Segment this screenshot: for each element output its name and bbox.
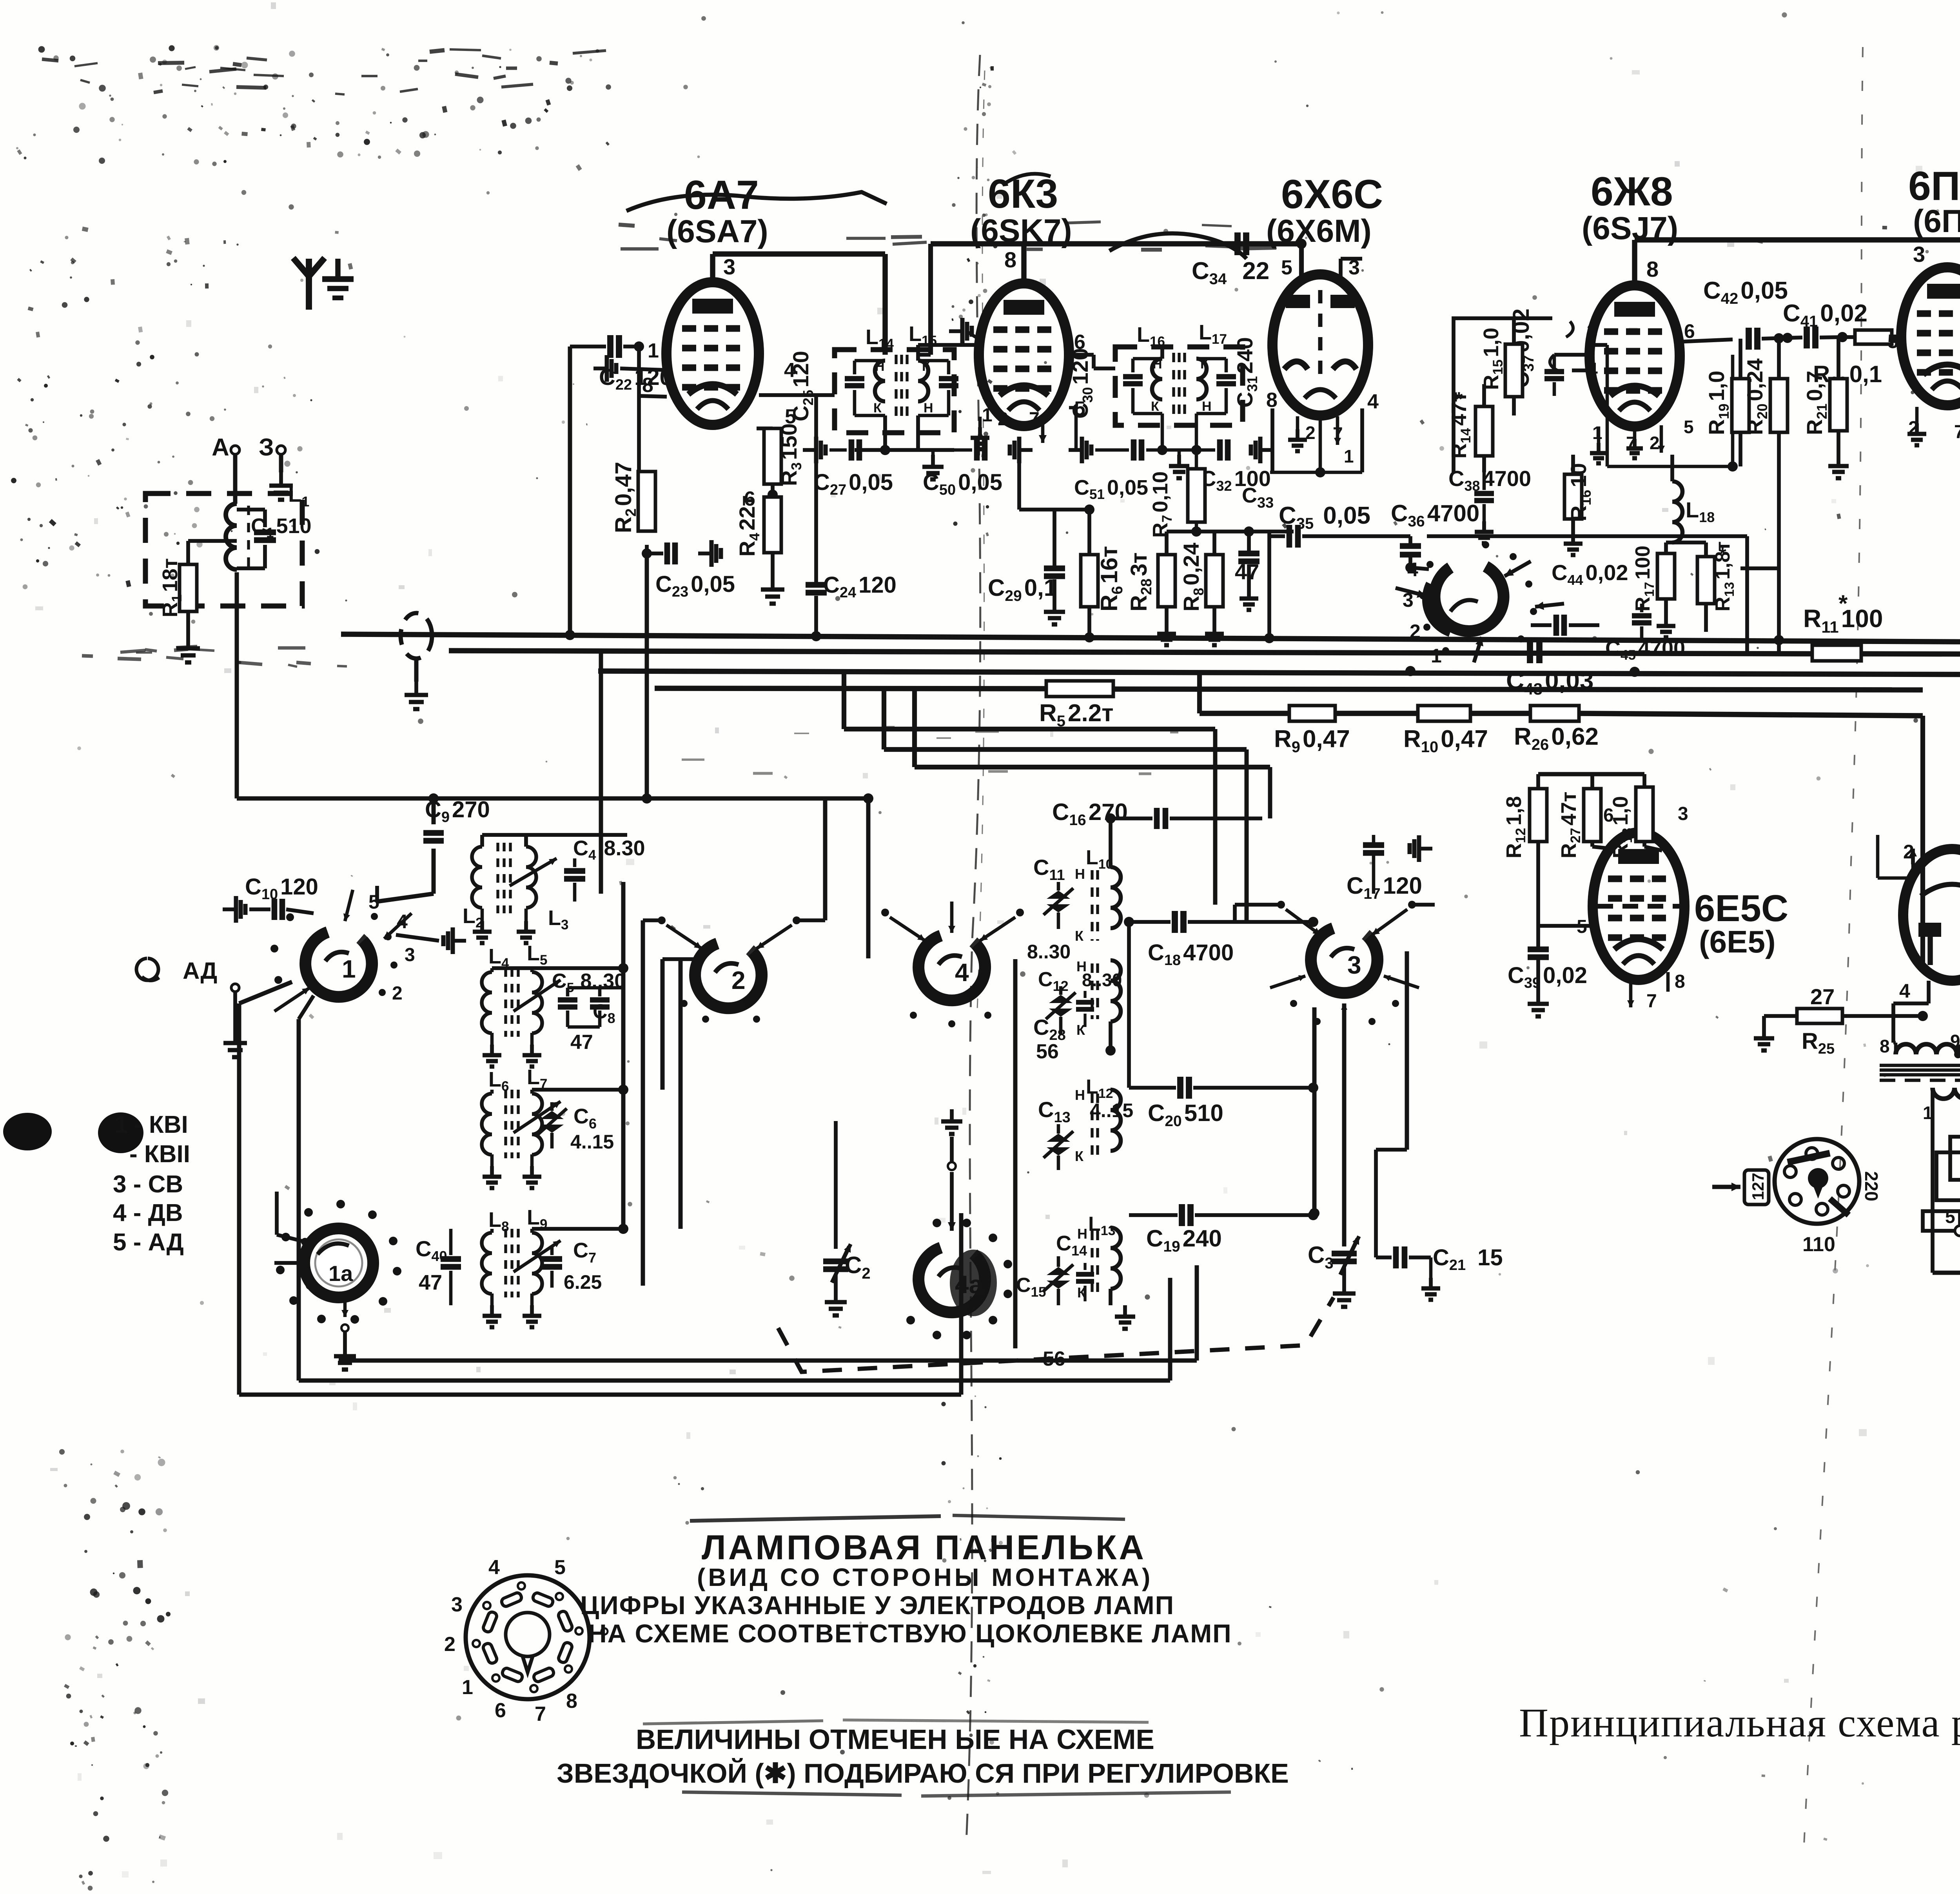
wire bus D long horizontal interrupted by R5 <box>655 688 1046 689</box>
resistor R6 16t <box>1087 510 1091 555</box>
wire wafer1 bottom to vertical2 <box>299 996 314 1019</box>
ground under IF2 <box>1178 450 1181 455</box>
svg-text:C430,03: C430,03 <box>1506 666 1594 698</box>
capacitor C1 510 <box>237 508 265 512</box>
coil L17 <box>1196 359 1207 399</box>
variable capacitor C3 <box>1314 1213 1344 1214</box>
primary taps down <box>1931 1088 1935 1273</box>
svg-text:8: 8 <box>1646 257 1659 281</box>
wires coils to wafer2 <box>662 957 695 961</box>
svg-text:4: 4 <box>955 958 969 987</box>
vertical fold crease right <box>1803 47 1863 1862</box>
svg-text:C390,02: C390,02 <box>1508 963 1587 991</box>
wire step line 2 <box>882 688 886 749</box>
wire IF2 bottom bus <box>1162 448 1196 452</box>
svg-text:1а: 1а <box>328 1261 353 1286</box>
coil L16 <box>1152 359 1162 399</box>
svg-text:C19240: C19240 <box>1146 1225 1222 1255</box>
resistor R2 0,47 <box>638 472 655 531</box>
svg-text:1: 1 <box>462 1676 473 1699</box>
wire 6A7 plate to IF1 <box>710 254 715 282</box>
wire 6X6C pin4 right side down <box>1360 408 1364 472</box>
wire drop to wafer4 <box>866 798 871 958</box>
svg-text:R17100: R17100 <box>1632 546 1657 611</box>
resistor R3 150 <box>764 428 781 484</box>
wires osc coil column verticals <box>1013 959 1018 1348</box>
svg-text:7: 7 <box>1954 422 1960 443</box>
svg-text:8: 8 <box>566 1690 577 1713</box>
svg-text:R52.2т: R52.2т <box>1039 700 1114 730</box>
svg-text:8: 8 <box>1266 389 1278 412</box>
svg-text:27: 27 <box>1810 984 1835 1009</box>
capacitor C27 0,05 <box>803 448 816 452</box>
svg-text:8: 8 <box>1004 247 1016 272</box>
tube V4 6Zh8 AF amp <box>1590 285 1680 426</box>
capacitor C9 270 series <box>432 798 436 824</box>
wire 6K3 pin6 to IF2 <box>1092 355 1096 368</box>
svg-text:C384700: C384700 <box>1448 466 1531 494</box>
wire long vertical from 6A7 grid to wafer2 <box>735 702 736 798</box>
resistor R5 2.2t <box>1046 681 1113 697</box>
selector 127 box <box>1744 1170 1769 1205</box>
svg-text:4: 4 <box>1367 390 1379 413</box>
wire bus B long horizontal with R11 <box>449 651 1812 654</box>
svg-text:- КВII: - КВII <box>129 1141 190 1168</box>
ink blob stain A <box>3 1113 52 1150</box>
wire IF1 secondary to 6K3 grid <box>916 345 920 361</box>
wire bus E drop into 6E5C area <box>1538 716 1539 774</box>
junction dots extra <box>880 445 890 455</box>
svg-text:3: 3 <box>451 1593 463 1616</box>
wire wafer1 left pin to long vertical <box>239 982 292 1003</box>
wafer switch 5 AD section <box>1435 566 1504 631</box>
antenna symbol <box>306 276 312 310</box>
wire 6Zh8 plate rail to 6P3S <box>1632 240 1637 285</box>
svg-text:Н: Н <box>1075 866 1085 882</box>
wafer4 arrows <box>890 917 925 941</box>
svg-text:8: 8 <box>1880 1036 1890 1056</box>
capacitor C26 inside IF1 right <box>918 359 949 363</box>
svg-text:*: * <box>1455 388 1463 410</box>
resistor R27 47t <box>1584 789 1601 842</box>
wafer1a ground below <box>343 1298 347 1317</box>
wire C22 left down to bus A <box>568 347 572 634</box>
wire bus E left riser <box>1197 671 1202 713</box>
svg-text:C22120: C22120 <box>599 365 672 393</box>
wire wafer1a pins left loop <box>275 1192 279 1235</box>
wire step line 1 <box>842 671 846 729</box>
wire L10 K to L12 H chain <box>1110 928 1111 1090</box>
svg-text:3 - СВ: 3 - СВ <box>113 1171 183 1198</box>
capacitor C39 0,02 <box>1536 926 1540 947</box>
ground under IF1 <box>931 450 935 455</box>
svg-text:Н: Н <box>1077 1226 1087 1242</box>
wire wafer3 to coils left <box>1233 905 1237 922</box>
svg-text:НА СХЕМЕ СООТВЕТСТВУЮ ЦОКОЛЕВ: НА СХЕМЕ СООТВЕТСТВУЮ ЦОКОЛЕВКЕ ЛАМП <box>588 1619 1232 1648</box>
svg-text:47: 47 <box>570 1031 593 1054</box>
svg-text:8..30: 8..30 <box>1027 941 1071 963</box>
resistor R9 0,47 <box>1289 706 1335 721</box>
svg-text:R422т: R422т <box>735 495 762 557</box>
nested loop wires bottom left <box>339 1359 1197 1363</box>
capacitor C21 15 <box>1393 1246 1399 1268</box>
selector wiring maze <box>1950 1137 1960 1180</box>
svg-text:*: * <box>1719 544 1726 565</box>
resistor R14* 47t <box>1475 406 1493 456</box>
wire from rail C down to wafer2 top <box>728 671 729 929</box>
svg-text:6Ж8: 6Ж8 <box>1591 169 1673 214</box>
resistor R15 1,0 <box>1505 344 1523 397</box>
ground below shielded oval <box>414 682 418 695</box>
wire IF2 to 6X6C <box>1160 345 1164 359</box>
svg-text:ЦИФРЫ УКАЗАННЫЕ У ЭЛЕКТРОДОВ Л: ЦИФРЫ УКАЗАННЫЕ У ЭЛЕКТРОДОВ ЛАМП <box>580 1591 1174 1620</box>
resistor R18 1,0 <box>1636 787 1653 842</box>
dashed box antenna coil <box>145 493 302 606</box>
variable capacitor C2 <box>823 1259 848 1264</box>
pin 1 6A7 with chassis tick <box>593 366 607 370</box>
wire R4 to ground <box>771 553 775 576</box>
capacitor C31 240 IF2 <box>1196 357 1226 361</box>
svg-text:C20510: C20510 <box>1148 1100 1223 1130</box>
grounds under L8 L9 <box>490 1294 494 1305</box>
svg-text:9: 9 <box>1950 1031 1960 1051</box>
wire A to L1 <box>233 455 238 504</box>
svg-text:ЛАМПОВАЯ ПАНЕЛЬКА: ЛАМПОВАЯ ПАНЕЛЬКА <box>702 1528 1146 1567</box>
tube V5 6P3S output <box>1901 267 1960 405</box>
svg-text:8: 8 <box>1675 971 1685 992</box>
resistor R26 0,62 <box>1530 706 1579 721</box>
wire top feed of R12 R27 R18 <box>1538 772 1644 776</box>
capacitor C50 0,05 <box>918 448 972 452</box>
svg-text:C24120: C24120 <box>823 572 897 601</box>
wire node to bus A <box>1267 532 1271 634</box>
wire step line 3 <box>912 690 917 767</box>
svg-text:C184700: C184700 <box>1148 940 1234 969</box>
svg-text:6Е5С: 6Е5С <box>1694 887 1788 929</box>
svg-text:220: 220 <box>1861 1171 1882 1201</box>
resistor R7 0,10 <box>1188 469 1205 522</box>
resistor R16 10 <box>1564 474 1582 519</box>
wire IF1 bottoms to ground bus <box>883 415 887 450</box>
svg-text:5: 5 <box>1684 417 1694 437</box>
svg-text:3: 3 <box>1587 320 1598 342</box>
svg-text:6: 6 <box>1603 805 1614 826</box>
wafer2 arrows <box>666 925 702 949</box>
resistor R12 1,8 <box>1530 789 1547 842</box>
svg-text:АД: АД <box>183 958 217 984</box>
svg-text:К: К <box>1075 928 1084 944</box>
svg-text:Принципиальная схема радиопр: Принципиальная схема радиоприемника «Бал… <box>1519 1700 1960 1745</box>
wire R20 bottom to bus <box>1740 566 1779 570</box>
svg-text:C25120: C25120 <box>788 351 816 421</box>
svg-text:1: 1 <box>342 955 356 983</box>
wire bus E right drop to 6E5C <box>1920 716 1925 972</box>
box around R14 R15 <box>1454 318 1552 472</box>
wire 6X6C pin8 left <box>1270 408 1274 472</box>
wire 6K3 pin5 bottom to AVC <box>1076 450 1076 474</box>
wafer4a dots <box>1004 1290 1012 1298</box>
svg-text:1: 1 <box>648 339 659 362</box>
svg-text:7: 7 <box>1646 991 1657 1012</box>
svg-text:1: 1 <box>982 405 993 426</box>
svg-text:4..15: 4..15 <box>1090 1099 1133 1121</box>
wafer switch 3 <box>1311 928 1377 993</box>
tube socket legend circle <box>466 1575 590 1699</box>
svg-text:1: 1 <box>1431 645 1442 667</box>
svg-text:6.25: 6.25 <box>564 1271 602 1293</box>
wire pin8 down to R2 <box>637 396 641 472</box>
svg-text:2: 2 <box>731 966 746 994</box>
power transformer core <box>1880 1064 1960 1067</box>
power transformer primary top leads <box>1927 981 1931 1003</box>
svg-text:(6П3): (6П3) <box>1913 203 1960 239</box>
svg-text:R616т: R616т <box>1096 546 1126 611</box>
svg-text:ВЕЛИЧИНЫ ОТМЕЧЕН ЫЕ НА СХЕМЕ: ВЕЛИЧИНЫ ОТМЕЧЕН ЫЕ НА СХЕМЕ <box>636 1724 1154 1755</box>
wire rail to 6X6C pin5 <box>1299 244 1304 277</box>
svg-text:C1510: C1510 <box>251 514 312 541</box>
hump scribble right of 6K3 <box>1109 233 1247 259</box>
svg-text:2: 2 <box>1410 620 1421 642</box>
wire 6Zh8 cathode box <box>1606 345 1609 466</box>
resistor R20 0,24 <box>1774 333 1784 343</box>
capacitor C33 47 <box>1244 526 1254 537</box>
svg-text:4: 4 <box>488 1556 500 1579</box>
svg-text:*: * <box>1838 590 1848 617</box>
svg-text:К: К <box>1075 1148 1084 1164</box>
svg-text:Н: Н <box>1075 1087 1085 1103</box>
wire wafer1 pin4 to chassis tick <box>396 935 439 941</box>
wire Z to ground <box>279 455 283 472</box>
wire 5Ts4S cathode to C49 <box>1878 876 1913 880</box>
svg-text:C17120: C17120 <box>1347 873 1422 902</box>
capacitor C22 120 <box>570 345 606 348</box>
tube V6 5Ts4S rectifier <box>1903 849 1960 981</box>
wire from C24 bottom joining bus A <box>816 634 817 635</box>
svg-text:C500,05: C500,05 <box>923 470 1002 498</box>
svg-text:1: 1 <box>1344 446 1354 466</box>
long verticals to coil column <box>621 882 626 1229</box>
svg-text:R80,24: R80,24 <box>1179 543 1207 611</box>
capacitor C34 22 over detector <box>1234 232 1241 255</box>
svg-text:C31240: C31240 <box>1232 337 1260 408</box>
wire bus A long horizontal <box>341 634 1960 643</box>
svg-text:R100,47: R100,47 <box>1403 726 1488 756</box>
resistor R10 0,47 <box>1418 706 1470 721</box>
coil L18 <box>1670 455 1674 481</box>
capacitor C25 120 inside IF1 <box>855 359 885 363</box>
svg-text:C510,05: C510,05 <box>1074 476 1148 502</box>
svg-text:З: З <box>259 434 274 461</box>
wire 6K3 plate rail <box>1021 244 1026 283</box>
svg-text:56: 56 <box>1036 1040 1059 1063</box>
svg-text:3: 3 <box>1678 804 1688 824</box>
svg-text:C32100: C32100 <box>1200 466 1271 494</box>
ink blob stain B <box>98 1112 143 1153</box>
svg-text:5 - АД: 5 - АД <box>113 1229 184 1256</box>
svg-text:6: 6 <box>1684 320 1695 342</box>
svg-text:Н: Н <box>1202 399 1212 414</box>
grounds under L4 L5 <box>490 1033 494 1045</box>
coil L14 <box>875 361 885 401</box>
wire shielded lead-in oval <box>401 613 432 659</box>
grounds under L2 L3 <box>481 909 484 921</box>
svg-text:4 - ДВ: 4 - ДВ <box>113 1199 183 1226</box>
svg-text:C230,05: C230,05 <box>655 571 735 600</box>
wire L1 down to switch area <box>235 572 239 798</box>
svg-text:C16270: C16270 <box>1052 799 1128 829</box>
wire 6X6C pin1 bottom <box>1319 415 1322 472</box>
tube V7 6E5C magic eye <box>1593 833 1684 980</box>
svg-text:2: 2 <box>998 409 1008 430</box>
wire grid 6Zh8 from C36 <box>1554 353 1590 357</box>
svg-text:127: 127 <box>1749 1173 1767 1200</box>
wafer switch 2 <box>695 943 762 1008</box>
svg-text:А: А <box>212 434 229 461</box>
capacitor C32 100 <box>1195 414 1198 450</box>
svg-text:R200,24: R200,24 <box>1742 359 1770 435</box>
wire R2 bottom down and right (osc line) <box>645 553 649 798</box>
svg-text:C58..30: C58..30 <box>552 970 626 995</box>
svg-text:7: 7 <box>1029 409 1040 430</box>
resistor R22 0,1 horizontal <box>1855 330 1892 344</box>
ground under L13 <box>1109 1289 1112 1305</box>
dashed gang line <box>778 1297 1334 1372</box>
resistor R13* 1,8t <box>1697 557 1715 604</box>
resistor R21 0,7 <box>1837 337 1840 379</box>
capacitor C43 0,03 in series on bus <box>1527 640 1533 663</box>
svg-text:4: 4 <box>1899 980 1910 1002</box>
tube V3 6X6C detector <box>1272 274 1368 415</box>
coil L15 <box>918 361 928 401</box>
svg-text:8..30: 8..30 <box>1082 970 1122 990</box>
wafer switch 4 <box>918 936 985 1000</box>
svg-text:C364700: C364700 <box>1391 500 1479 530</box>
capacitor C30 120 IF2 <box>1133 357 1162 361</box>
wafer switch 4a <box>918 1248 985 1312</box>
capacitor C29 0,1 <box>1019 508 1089 512</box>
wafer4a top stem <box>950 1199 954 1231</box>
ground symbol top <box>335 259 340 279</box>
svg-text:1: 1 <box>114 1111 128 1138</box>
switch VK <box>1933 1271 1960 1275</box>
wafer1a dots around <box>393 1267 401 1275</box>
svg-text:(6SA7): (6SA7) <box>666 214 768 249</box>
wire pin4 right to IF1 dashed box <box>816 393 835 397</box>
svg-text:(6Е5): (6Е5) <box>1699 924 1776 959</box>
chassis tick at 6K3 grid <box>949 329 962 333</box>
wafer5 pins and dots <box>1426 561 1434 568</box>
svg-text:C10120: C10120 <box>245 874 318 903</box>
svg-text:(ВИД СО СТОРОНЫ МОНТАЖА): (ВИД СО СТОРОНЫ МОНТАЖА) <box>697 1563 1153 1591</box>
tube V1 6A7 mixer <box>666 282 759 425</box>
junction dots on buses <box>565 630 575 640</box>
svg-text:47: 47 <box>1235 559 1259 584</box>
underline strokes around text block <box>690 1516 941 1521</box>
svg-text:Н: Н <box>1152 357 1162 372</box>
svg-text:3: 3 <box>1347 951 1361 979</box>
svg-text:C270,05: C270,05 <box>813 470 893 498</box>
svg-text:R260,62: R260,62 <box>1514 723 1599 753</box>
voltage selector disc <box>1775 1139 1859 1224</box>
capacitor C28 cap <box>1076 1000 1094 1005</box>
capacitor C51 0,05 <box>1069 448 1082 452</box>
svg-text:C410,02: C410,02 <box>1783 300 1867 330</box>
wire wafer3 verticals down to C3 <box>1312 1007 1317 1213</box>
wire bus C long horizontal <box>598 671 1960 675</box>
resistor R28 3t <box>1158 555 1175 607</box>
svg-text:Н: Н <box>875 359 885 374</box>
svg-text:C350,05: C350,05 <box>1279 502 1370 532</box>
svg-text:C454700: C454700 <box>1605 637 1685 663</box>
svg-text:6Х6С: 6Х6С <box>1281 172 1383 217</box>
oscillator coil L11 <box>1111 960 1121 1021</box>
svg-text:47: 47 <box>419 1271 442 1294</box>
wire AVC line right extension <box>1427 534 1747 538</box>
svg-text:R2747т: R2747т <box>1557 792 1583 858</box>
power transformer primary winding bottom <box>1933 1088 1960 1099</box>
svg-text:ЗВЕЗДОЧКОЙ (✱) ПОДБИРАЮ СЯ ПР: ЗВЕЗДОЧКОЙ (✱) ПОДБИРАЮ СЯ ПРИ РЕГУЛИРОВ… <box>557 1758 1289 1789</box>
wire R1 to ground <box>186 611 190 635</box>
svg-text:R90,47: R90,47 <box>1274 726 1350 756</box>
wafer switch 1a annulus <box>304 1228 373 1297</box>
tube V2 6K3 IF amp <box>979 283 1069 426</box>
dashed box IF transformer 2 <box>1115 347 1243 425</box>
svg-text:R70,10: R70,10 <box>1149 471 1175 538</box>
svg-text:6К3: 6К3 <box>988 171 1058 217</box>
svg-text:6: 6 <box>495 1699 506 1722</box>
svg-text:3: 3 <box>1913 242 1925 267</box>
resistor R17 100 <box>1657 553 1675 599</box>
power transformer secondary winding top <box>1896 1044 1960 1054</box>
capacitor C10 120 with chassis tick <box>223 907 236 911</box>
capacitor C23 0,05 <box>642 548 652 559</box>
dashed box IF transformer 1 <box>835 350 954 433</box>
capacitor C24 120 <box>814 395 818 583</box>
vertical fold crease left-center <box>966 55 980 1842</box>
socket legend slots <box>532 1592 554 1607</box>
svg-text:R118т: R118т <box>158 558 185 617</box>
svg-text:C48.30: C48.30 <box>573 836 645 863</box>
wire staircase verticals into wafers <box>844 729 844 729</box>
wafer switch 1 <box>305 932 372 997</box>
wire from wafer5 down to C44 <box>1513 625 1531 626</box>
wire pin5 left down <box>1538 924 1582 928</box>
svg-text:4..15: 4..15 <box>570 1131 614 1153</box>
resistor R1 18t <box>188 539 237 543</box>
svg-text:К: К <box>1200 357 1209 372</box>
svg-text:5: 5 <box>1281 256 1292 279</box>
svg-text:7: 7 <box>535 1703 546 1725</box>
grounds under L6 L7 <box>490 1154 494 1166</box>
svg-text:Н: Н <box>924 401 933 415</box>
resistor R4 22t <box>768 490 778 500</box>
svg-text:- КВI: - КВI <box>134 1111 188 1138</box>
svg-text:К: К <box>1151 399 1159 414</box>
svg-text:C440,02: C440,02 <box>1552 560 1628 588</box>
svg-text:2: 2 <box>444 1633 456 1656</box>
svg-text:R3150: R3150 <box>777 423 804 486</box>
hump scribble over 6A7 label <box>626 192 887 211</box>
wafer1a left pins <box>301 1238 309 1246</box>
svg-text:6П3С: 6П3С <box>1908 163 1960 209</box>
resistor R8 0,24 <box>1206 555 1223 607</box>
svg-text:R20,47: R20,47 <box>611 462 639 533</box>
wire IF1 secondary hook up to rail <box>928 244 933 355</box>
svg-text:110: 110 <box>1802 1233 1835 1256</box>
coil L1 <box>226 504 237 570</box>
wire horizontal feeding R6 top <box>1017 450 1021 510</box>
wafer3 arrows <box>1286 909 1320 935</box>
